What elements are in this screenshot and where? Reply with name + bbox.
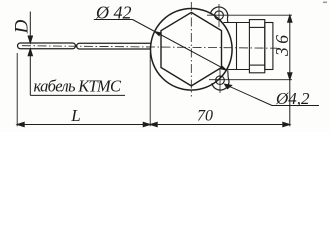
vertical centerline of head	[190, 2, 192, 97]
wire: probe rod capsule segment 1	[18, 43, 76, 49]
node: leader for O4,2 hole	[225, 84, 320, 105]
ground: horizontal centerline	[22, 46, 277, 49]
lug top with hole	[211, 4, 228, 27]
wire: extension from bottom lug hole	[209, 79, 292, 81]
node: threaded fitting side view block	[224, 20, 273, 73]
lug bottom with hole	[212, 69, 229, 93]
svg-text:L: L	[70, 106, 80, 125]
node: hex across-corners diagonal (O42)	[133, 20, 227, 71]
svg-text:кабель КТМС: кабель КТМС	[34, 77, 122, 96]
wire: extension from top lug hole	[207, 14, 292, 16]
speck	[323, 2, 327, 4]
hex nut outline	[161, 12, 222, 86]
svg-text:36: 36	[272, 31, 292, 57]
wire: middle extension line at flange	[149, 52, 151, 126]
dimension D upper line	[28, 12, 32, 44]
svg-text:70: 70	[197, 108, 213, 125]
dimension 36 vertical line	[288, 15, 292, 126]
dimension 70	[150, 122, 290, 126]
dimension L	[17, 122, 150, 126]
svg-text:Ø4,2: Ø4,2	[275, 89, 310, 108]
svg-text:D: D	[11, 19, 32, 34]
wire: left extension line for L	[16, 53, 18, 126]
flange circle body	[151, 9, 233, 91]
dimension D lower line / cable leader	[28, 49, 32, 96]
wire: probe rod capsule segment 2 (after break)	[77, 43, 156, 49]
